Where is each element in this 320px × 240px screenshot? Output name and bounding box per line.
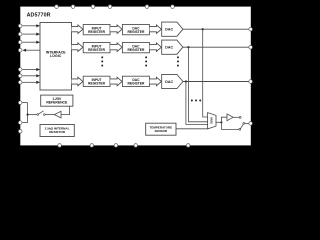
pin SCLK [18, 24, 22, 28]
bus arrow DAC register to DAC R3 [150, 77, 162, 86]
pin SDO [18, 48, 22, 52]
DAC n pentagon [162, 74, 183, 88]
pin ALARM [18, 74, 22, 78]
wire ALARM to interface [22, 75, 37, 77]
pin VDD top 2 [71, 5, 75, 9]
svg-text:DAC: DAC [165, 28, 173, 32]
interface logic block [40, 23, 72, 91]
svg-text:REFERENCE: REFERENCE [46, 100, 68, 104]
pin MUXOUT [249, 122, 253, 126]
bus arrow input reg to DAC register R2 [110, 43, 122, 52]
pin IOUT5 [249, 80, 253, 84]
2.5k internal resistor box [40, 125, 74, 137]
svg-text:SENSOR: SENSOR [154, 129, 168, 133]
pin SYNC [18, 32, 22, 36]
svg-text:AD5770R: AD5770R [27, 13, 51, 19]
svg-text:LOGIC: LOGIC [50, 54, 62, 58]
node reference junction [27, 114, 29, 116]
svg-text:DAC: DAC [165, 80, 173, 84]
temperature sensor box [146, 123, 176, 135]
wire junction up to buffer [221, 117, 227, 122]
wire temperature sensor to mux input 4 [176, 128, 208, 130]
DAC register R2 [122, 43, 149, 53]
svg-text:REGISTER: REGISTER [88, 30, 105, 34]
wire tap DAC1 to mux input 1 [203, 29, 208, 117]
wire DAC2 output to IOUT1 pin [183, 46, 249, 48]
pin GND bottom 5 [186, 144, 190, 148]
wire switch to buffer [45, 114, 54, 116]
pin VDD top 3 [91, 5, 95, 9]
node mux output junction [220, 121, 222, 123]
arrowhead ALARM [36, 74, 40, 77]
bus arrow input reg to DAC register R1 [110, 25, 122, 34]
svg-text:REGISTER: REGISTER [127, 48, 144, 52]
switch throw 2 contact [239, 128, 241, 130]
switch throw 1 contact [239, 117, 241, 119]
svg-text:RESISTOR: RESISTOR [49, 130, 66, 134]
pin REFCA [18, 101, 22, 105]
pin VDD top 4 [108, 5, 112, 9]
wire vertical REFCA to REF [27, 103, 29, 123]
pin VDD top 6 [171, 5, 175, 9]
wire SDIO to interface [22, 41, 37, 43]
1.25V reference box [41, 95, 73, 106]
svg-text:MUX: MUX [210, 117, 214, 124]
wire DACn output to IOUT5 pin [183, 81, 249, 83]
pin IOUT0 [249, 27, 253, 31]
wire junction down to switch throw 2 [221, 122, 239, 129]
pin SDIO [18, 40, 22, 44]
arrowhead SDO (points to pin) [22, 49, 26, 52]
buffer amp A2 [227, 114, 233, 121]
mux U2 [208, 113, 216, 129]
ellipsis dots DAC register column [145, 57, 147, 67]
wire buffer output to switch throw 1 [233, 116, 239, 118]
DAC 2 pentagon [162, 40, 183, 54]
svg-text:DAC: DAC [165, 46, 173, 50]
bus arrow input reg to DAC register R3 [110, 77, 122, 86]
wire HW LDAC to interface [22, 81, 37, 83]
pin HW LDAC [18, 81, 22, 85]
pin GND bottom 3 [114, 144, 118, 148]
pin VDD top 1 [55, 5, 59, 9]
wire junction to switch [29, 114, 37, 116]
svg-text:REGISTER: REGISTER [127, 30, 144, 34]
input register R1 [83, 25, 110, 35]
node: DAC1 output tap [202, 28, 204, 30]
arrowhead SDIO [36, 41, 40, 44]
pin GND bottom 1 [58, 144, 62, 148]
wire tap DAC2 to mux input 2 [188, 47, 207, 122]
ellipsis dots input register column [101, 57, 103, 67]
bus arrow DAC register to DAC R2 [150, 43, 162, 52]
wire switch common to MUXOUT pin [245, 122, 249, 124]
arrowhead SCLK [36, 24, 40, 27]
reference switch contact right [44, 114, 46, 116]
bus arrow interface to input register R1 [72, 25, 83, 34]
pin GND bottom 2 [90, 144, 94, 148]
arrowhead SYNC [36, 33, 40, 36]
wire SCLK to interface [22, 25, 37, 27]
wire SYNC to interface [22, 33, 37, 35]
pin REFGND [18, 130, 22, 134]
DAC 1 pentagon [162, 22, 183, 36]
wire buffer input from reference box [61, 106, 70, 114]
svg-text:REGISTER: REGISTER [127, 82, 144, 86]
arrowhead RESET [36, 68, 40, 71]
ellipsis dots DAC column [177, 57, 179, 67]
node: DACn output tap [185, 80, 187, 82]
DAC register R1 [122, 25, 149, 35]
bus arrow DAC register to DAC R1 [150, 25, 162, 34]
reference switch contact left [37, 114, 39, 116]
wire SDO from interface [26, 49, 41, 51]
DAC register R3 [122, 76, 149, 86]
bus arrow interface to input register R2 [72, 43, 83, 52]
wire RESET to interface [22, 69, 37, 71]
pin IOUT1 [249, 45, 253, 49]
ellipsis dots hidden channel taps [191, 100, 201, 102]
switch blade [241, 124, 244, 128]
svg-text:REGISTER: REGISTER [88, 82, 105, 86]
node: DAC2 output tap [187, 46, 189, 48]
pin REF [18, 121, 22, 125]
wire tap DACn to mux input 3 [186, 82, 208, 125]
arrowhead HW LDAC [36, 81, 40, 84]
chip body (white field) [20, 7, 251, 146]
pin RESET [18, 68, 22, 72]
wire DAC1 output to IOUT0 pin [183, 28, 249, 30]
input register R3 [83, 76, 110, 86]
wire REF pin [22, 122, 27, 124]
wire REFCA pin to junction [22, 102, 27, 104]
pin VDD top 5 [145, 5, 149, 9]
pin GND bottom 4 [134, 144, 138, 148]
wire mux output [216, 121, 221, 123]
svg-text:REGISTER: REGISTER [88, 48, 105, 52]
input register R2 [83, 43, 110, 53]
switch common contact [243, 123, 245, 125]
reference switch blade [39, 111, 44, 114]
bus arrow interface to input register R3 [72, 77, 83, 86]
reference buffer A1 (points left) [54, 111, 61, 118]
